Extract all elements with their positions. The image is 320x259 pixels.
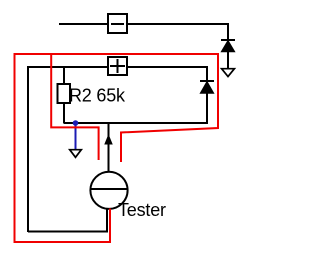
wire bottom edge to resistor bbox=[64, 122, 109, 124]
wire inner loop top-left bbox=[28, 67, 108, 232]
wire blue stub bbox=[75, 123, 77, 149]
diode D2 bbox=[200, 81, 214, 93]
resistor R2 body bbox=[58, 84, 71, 103]
component box B1 (minus box) bbox=[108, 14, 127, 33]
svg-text:R2 65k: R2 65k bbox=[69, 86, 126, 106]
red highlight main loop bbox=[15, 54, 219, 242]
wire tester to loop with current arrow bbox=[108, 123, 110, 171]
wire top right bbox=[127, 24, 228, 39]
component box B2 (plus box) bbox=[108, 57, 127, 75]
diode D1 bbox=[221, 40, 235, 52]
red highlight branch bbox=[51, 55, 98, 160]
tester circle U1 bbox=[90, 172, 127, 209]
wire resistor bottom lead bbox=[63, 103, 65, 123]
wire below D1 bbox=[227, 51, 229, 68]
wire inner loop top-right bbox=[127, 67, 207, 80]
current arrow head bbox=[105, 135, 112, 144]
wire top feed bbox=[59, 23, 108, 25]
svg-text:Tester: Tester bbox=[118, 200, 166, 220]
open arrow terminal A1 bbox=[222, 69, 235, 77]
wire inner loop right-bottom bbox=[109, 93, 208, 123]
wire resistor top lead bbox=[63, 67, 65, 84]
wire tester bottom to loop bbox=[28, 209, 107, 232]
node junction (blue dot) bbox=[73, 120, 79, 126]
open arrow terminal A2 bbox=[70, 150, 82, 158]
